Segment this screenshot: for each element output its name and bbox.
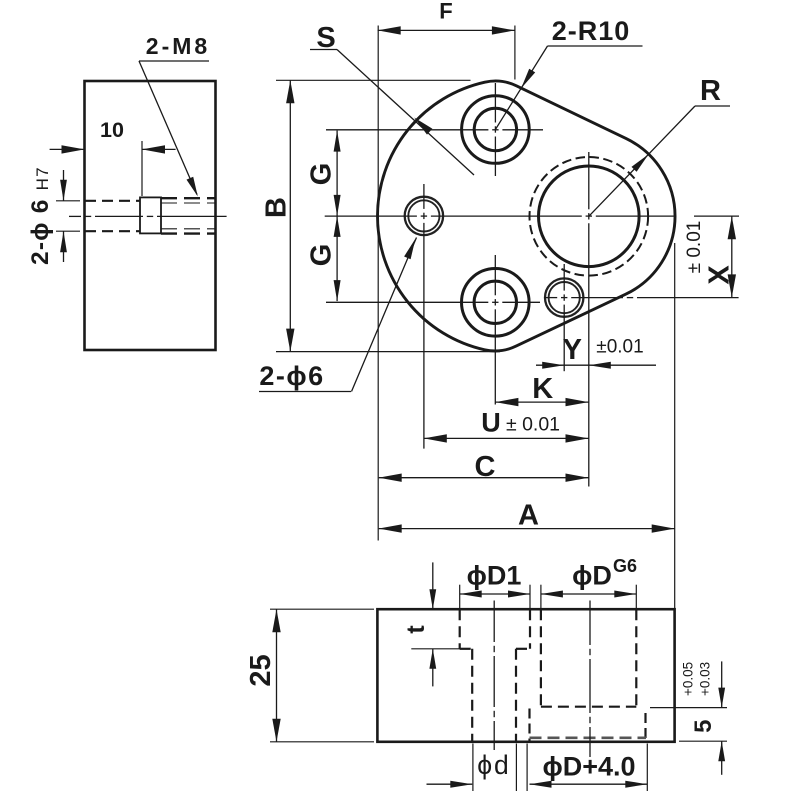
svg-text:2-ϕ6: 2-ϕ6 [259,361,324,391]
extension lines phiD [540,585,542,609]
dimension Y arrow right [589,362,611,369]
dimension 2-phi6 arrow bottom [60,231,67,252]
svg-text:2-M8: 2-M8 [146,33,210,59]
label 2-phi6 underline [259,391,351,393]
thread M8 hidden minor top [161,202,215,204]
extension line X top [694,215,739,217]
section phid centerline [493,601,495,643]
dimension 2-phi6 extension ticks [56,200,80,202]
extension line B bottom [276,351,500,353]
svg-text:± 0.01: ± 0.01 [506,414,560,436]
svg-text:± 0.01: ± 0.01 [684,221,705,274]
dimension 25 line [276,609,278,742]
svg-text:A: A [518,500,539,532]
bore vertical centerline [588,152,590,209]
extension line 5 bottom [679,740,727,742]
label 2-M8 leader [139,61,197,195]
svg-text:ϕD+4.0: ϕD+4.0 [542,752,635,782]
dimension 2-phi6 line bottom [63,231,65,262]
dimension 2-phi6 arrow top [60,180,67,201]
svg-text:B: B [261,197,293,218]
dimension t arrow bottom [429,649,436,669]
label R leader [589,106,695,216]
extension lines phiD1 [459,585,461,609]
dimension t line top [432,562,434,609]
dimension U line [424,437,589,439]
dimension phiD1 arrow left [460,591,482,598]
extension line t shoulder [411,648,461,650]
counterbore phiD1 wall left [459,609,461,649]
dimension 5 line top [721,661,723,707]
hole phid wall left [471,649,473,742]
section block outline [377,609,674,742]
label 2-phi6 leader [352,238,417,392]
svg-text:G6: G6 [613,556,637,576]
svg-text:ϕD: ϕD [572,561,612,591]
dimension F arrow right [492,26,515,34]
dimension 25 arrow top [272,609,280,632]
right hole vertical centerline [563,264,565,291]
dimension C arrow right [566,474,589,482]
side view block outline [85,81,216,350]
label R underline [695,105,730,107]
extension line B top [276,79,471,81]
dimension 5 arrow bottom [718,741,725,761]
extension lines phid [472,744,474,792]
dimension 10 extension line [141,141,143,196]
extension line 5 top [650,707,727,709]
bore phiD wall right [635,609,637,707]
extension line F right [514,26,516,80]
label 2-R10 leader arrow [521,69,535,89]
dimension C line [379,477,589,479]
dimension t line bottom [432,649,434,687]
label 2-R10 leader [495,46,547,130]
svg-text:5: 5 [690,720,717,733]
dimension F arrow left [378,26,401,34]
dimension G arrow bottom [334,280,341,301]
dimension phiD+4.0 line [530,783,648,785]
left hole vertical centerline [423,184,425,209]
extension line left extreme (F/C/A) [377,26,379,541]
bore phiD wall left [540,609,542,707]
left phi6 hole inner circle [408,200,439,231]
dimension phiD1 arrow right [508,591,530,598]
label 2-R10 underline [548,45,643,47]
extension line A right [674,243,676,609]
center bore circle [539,166,640,267]
counterbore phiD+4 wall left [528,709,530,742]
dimension G line upper [336,131,338,216]
hole phi6 hidden line bottom [85,230,140,232]
bottom hole vertical centerline [494,255,496,295]
dimension phid arrow [450,781,472,788]
dimension F line [378,29,515,31]
center bore dashed circle (bolt circle) [530,157,649,276]
dimension 10 arrow right [142,145,165,153]
dimension 2-phi6 line top [63,170,65,201]
dimension Y arrow left [542,362,564,369]
svg-text:2-R10: 2-R10 [552,16,631,46]
left phi6 hole outer circle [405,197,443,235]
hole phi6 hidden line top [85,200,140,202]
svg-text:10: 10 [100,118,124,142]
svg-text:G: G [306,244,338,267]
extension lines phiD+4.0 [526,744,528,792]
top hole horizontal centerline [326,129,488,131]
dimension phiD1 line [460,593,530,595]
dimension G arrows middle [334,195,341,216]
dimension phiD line [541,593,636,595]
dimension 10 line left [50,148,85,150]
counterbore step outline [140,197,161,233]
dimension X arrow top [728,216,736,239]
dimension 10 line right [142,148,176,150]
label 2-M8 underline [139,60,209,62]
dimension phid line [427,783,473,785]
label S leader [337,50,474,176]
svg-text:25: 25 [245,654,277,686]
dimension 5 line bottom [721,741,723,775]
svg-text:U: U [481,408,501,438]
dimension phiD arrow left [541,591,563,598]
dimension Y line [536,364,656,366]
dimension B line [289,80,291,351]
right hole horizontal centerline [544,297,557,299]
thread M8 hidden major top [161,197,215,199]
top counterbore outer circle [462,96,530,164]
counterbore phiD1 wall right [529,609,531,649]
bottom counterbore inner circle [474,281,516,323]
bottom counterbore outer circle [462,269,530,337]
top counterbore inner circle [474,108,516,150]
label R leader arrow [632,154,649,172]
svg-text:±0.01: ±0.01 [596,337,643,358]
dimension phiD+4.0 arrow left [530,781,552,788]
dimension G arrow top [334,131,341,152]
right phi6 hole inner circle [549,282,580,313]
extension line 25 bottom [270,741,374,743]
plate outline [377,81,675,351]
dimension K arrow left [495,398,518,406]
label 2-M8 leader arrow [187,177,198,197]
dimension G line lower [336,216,338,301]
extension line 25 top [270,608,374,610]
dimension K arrow right [566,398,589,406]
dimension phiD+4.0 arrow right [625,781,647,788]
dimension U arrow left [424,434,447,442]
right phi6 hole outer circle [545,278,583,316]
dimension 10 arrow left [62,145,85,153]
dimension A arrow left [379,524,402,532]
svg-text:ϕd: ϕd [477,750,511,780]
counterbore phiD+4 hidden edge [530,736,647,739]
dimension A line [379,528,675,530]
dimension B arrow top [286,80,294,103]
side view hole centerline [69,215,81,217]
svg-text:Y: Y [563,334,582,366]
label S underline [310,49,337,51]
dimension K line [495,401,588,403]
top hole vertical centerline [494,83,496,123]
svg-text:K: K [532,373,553,405]
thread M8 hidden minor bottom [161,228,215,230]
main horizontal centerline [325,215,417,217]
svg-text:t: t [402,625,430,634]
dimension U arrow right [566,434,589,442]
dimension X arrow bottom [728,274,736,297]
dimension 25 arrow bottom [272,719,280,742]
counterbore phiD+4 wall right [644,713,646,742]
label 2-phi6 leader arrow [404,239,415,260]
dimension X line [731,216,733,297]
hole phid wall right [515,649,517,742]
dimension B arrow bottom [286,329,294,352]
thread M8 hidden major bottom [161,232,215,234]
dimension 5 arrow top [718,688,725,708]
bore phiD bottom [541,706,636,708]
label S leader arrow [414,118,432,135]
bottom hole horizontal centerline [326,301,488,303]
svg-text:R: R [700,75,721,107]
dimension C arrow left [379,474,402,482]
section phiD centerline [589,601,591,646]
dimension phiD arrow right [614,591,636,598]
svg-text:G: G [306,163,338,186]
dimension A arrow right [652,524,675,532]
counterbore phiD1 shoulder [460,648,473,650]
svg-text:ϕD1: ϕD1 [467,561,522,591]
svg-text:F: F [439,0,452,24]
dimension t arrow top [429,589,436,609]
